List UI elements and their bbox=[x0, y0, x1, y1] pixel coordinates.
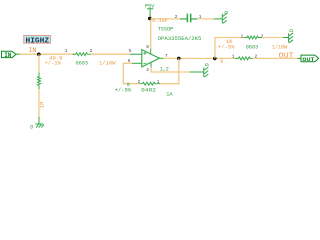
svg-text:2: 2 bbox=[175, 15, 178, 20]
svg-text:1: 1 bbox=[232, 54, 235, 59]
svg-text:0402: 0402 bbox=[141, 88, 156, 94]
svg-text:2: 2 bbox=[90, 49, 93, 54]
svg-text:IN: IN bbox=[4, 52, 12, 59]
wire down from junction bbox=[38, 54, 40, 72]
wire R3 to ground bbox=[262, 37, 283, 39]
svg-text:IN: IN bbox=[29, 47, 37, 54]
HIGHZ net flag bbox=[24, 36, 51, 46]
1K load branch bbox=[215, 38, 244, 59]
wire R4 to OUT port bbox=[253, 57, 298, 59]
svg-text:OPA3355EA/2K5: OPA3355EA/2K5 bbox=[158, 36, 202, 42]
wire P5V to opamp V+ bbox=[150, 16, 152, 49]
svg-text:8: 8 bbox=[146, 45, 149, 50]
svg-text:+/-5%: +/-5% bbox=[218, 45, 235, 51]
svg-text:0603: 0603 bbox=[76, 60, 89, 66]
svg-text:1A: 1A bbox=[166, 92, 173, 98]
wire IN port to R1 bbox=[20, 53, 76, 55]
svg-text:TSSOP: TSSOP bbox=[158, 26, 174, 32]
resistor R3 1K bbox=[218, 34, 288, 50]
svg-text:1/10W: 1/10W bbox=[272, 45, 288, 51]
wire R1M to ground bbox=[38, 89, 40, 117]
P5V power symbol bbox=[145, 3, 155, 16]
wire R1 to op-amp +in bbox=[91, 53, 130, 55]
resistor R 1M (vertical) bbox=[38, 73, 41, 90]
ground (right) for R3 bbox=[283, 29, 295, 43]
wire opamp out bbox=[164, 57, 236, 59]
svg-text:+/-5%: +/-5% bbox=[115, 87, 132, 93]
svg-text:1: 1 bbox=[241, 34, 244, 39]
svg-text:1: 1 bbox=[65, 49, 68, 54]
node junction dot load tap bbox=[213, 57, 217, 61]
wire junction to C1 bbox=[150, 18, 180, 20]
ground (right) for C1 bbox=[214, 11, 230, 24]
svg-text:2: 2 bbox=[138, 80, 141, 85]
svg-text:4: 4 bbox=[146, 68, 149, 73]
op-amp U1 OPA3355 bbox=[128, 26, 202, 73]
node junction dot feedback tap bbox=[177, 57, 181, 61]
svg-text:D: D bbox=[289, 29, 295, 32]
wire opamp V- down to ground bbox=[151, 67, 190, 72]
svg-text:0603: 0603 bbox=[246, 45, 259, 51]
svg-text:1/10W: 1/10W bbox=[99, 60, 116, 66]
port IN bbox=[2, 51, 17, 59]
svg-text:D: D bbox=[205, 63, 211, 66]
ground (down) bbox=[30, 117, 44, 131]
svg-text:+/-1%: +/-1% bbox=[45, 60, 62, 66]
svg-text:5: 5 bbox=[129, 49, 132, 54]
node junction dot bbox=[148, 17, 152, 21]
resistor R1 49.9 bbox=[45, 49, 117, 66]
svg-text:OUT: OUT bbox=[279, 52, 295, 60]
svg-text:0.1uF: 0.1uF bbox=[152, 17, 167, 24]
feedback wire bbox=[123, 63, 139, 83]
resistor R2 0 (feedback) bbox=[115, 80, 174, 98]
ground (right) for V- bbox=[190, 63, 211, 77]
svg-text:OUT: OUT bbox=[302, 56, 315, 63]
port OUT bbox=[301, 55, 319, 63]
svg-text:D: D bbox=[224, 11, 230, 14]
capacitor C1 0.1uF bbox=[175, 14, 202, 23]
resistor R4 0 (output) bbox=[232, 54, 258, 60]
node junction dot bbox=[37, 53, 41, 57]
wire C1 to ground bbox=[198, 18, 215, 20]
svg-text:0: 0 bbox=[220, 59, 223, 65]
svg-text:1: 1 bbox=[157, 80, 160, 85]
svg-text:HIGHZ: HIGHZ bbox=[26, 37, 50, 45]
svg-text:D: D bbox=[30, 125, 33, 131]
svg-text:1M: 1M bbox=[40, 102, 46, 108]
